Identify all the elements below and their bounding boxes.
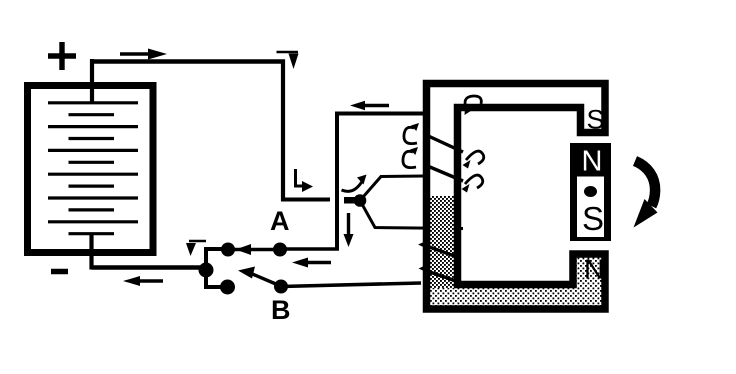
coil curl left 2 bbox=[403, 147, 418, 168]
wire upper contacts bbox=[228, 248, 280, 251]
upper contact dot bbox=[221, 243, 235, 257]
wire riser top to coil bbox=[335, 112, 425, 116]
brush contact bbox=[344, 197, 357, 204]
plus terminal label bbox=[48, 42, 76, 70]
current arrow top bbox=[120, 49, 167, 60]
core gray fill left limb bbox=[430, 196, 454, 306]
switch arm with arrow bbox=[238, 267, 277, 285]
core gray fill bottom limb bbox=[430, 288, 602, 306]
lower contact dot bbox=[220, 280, 235, 295]
battery plate lines bbox=[48, 103, 138, 234]
svg-text:N: N bbox=[582, 146, 603, 178]
coil curl right 1 bbox=[463, 151, 484, 168]
rotor magnet body bbox=[570, 143, 611, 241]
wire battery - down bbox=[89, 234, 93, 270]
wire bottom horizontal bbox=[92, 265, 205, 270]
switch pole junction bbox=[199, 263, 214, 278]
switch pole flag mark bbox=[186, 241, 206, 256]
core gray fill N pole bbox=[577, 258, 602, 306]
brush wire lower bbox=[360, 201, 463, 229]
contact B dot bbox=[274, 280, 288, 294]
svg-text:B: B bbox=[271, 295, 291, 325]
rotor pivot dot bbox=[584, 186, 597, 197]
corner direction mark bbox=[277, 52, 299, 69]
wire to brush bbox=[281, 198, 330, 202]
coil diagonal upper 2 bbox=[424, 165, 463, 182]
wire battery + up bbox=[90, 59, 94, 103]
coil diagonal lower 2 bbox=[419, 265, 460, 283]
svg-text:S: S bbox=[582, 200, 604, 237]
iron core outline bbox=[427, 84, 606, 310]
minus terminal label bbox=[51, 269, 68, 275]
current arrow down beside riser bbox=[344, 213, 354, 247]
current arrow upper left bbox=[350, 101, 389, 110]
current arrow bottom bbox=[123, 276, 163, 286]
brush wire upper bbox=[360, 176, 424, 201]
coil turn curl top bbox=[465, 96, 482, 115]
wire down segment bbox=[281, 60, 285, 202]
direction mark L-right bbox=[296, 169, 314, 192]
rotor lower white window bbox=[577, 177, 604, 238]
wire B to coil bbox=[281, 283, 421, 287]
coil diagonal upper 1 bbox=[424, 134, 463, 152]
coil diagonal lower 1 bbox=[418, 241, 460, 259]
wire A to vertical bbox=[280, 247, 339, 251]
svg-text:S: S bbox=[587, 105, 605, 135]
coil curl left 1 bbox=[404, 123, 419, 144]
contact A dot bbox=[273, 243, 287, 257]
mid current arrow left bbox=[292, 258, 331, 268]
svg-text:N: N bbox=[584, 254, 604, 285]
wire top horizontal bbox=[90, 59, 285, 64]
battery BT1 bbox=[28, 86, 154, 253]
curved arrow over brush bbox=[342, 175, 367, 192]
rotation arrow bbox=[634, 161, 658, 228]
wire pole to lower contact bbox=[206, 270, 222, 287]
wire vertical riser bbox=[335, 114, 339, 250]
wire pole to upper contact bbox=[206, 249, 228, 270]
arrowhead toward upper contact bbox=[236, 244, 252, 255]
coil curl right 2 bbox=[462, 175, 483, 192]
svg-text:A: A bbox=[270, 206, 290, 236]
